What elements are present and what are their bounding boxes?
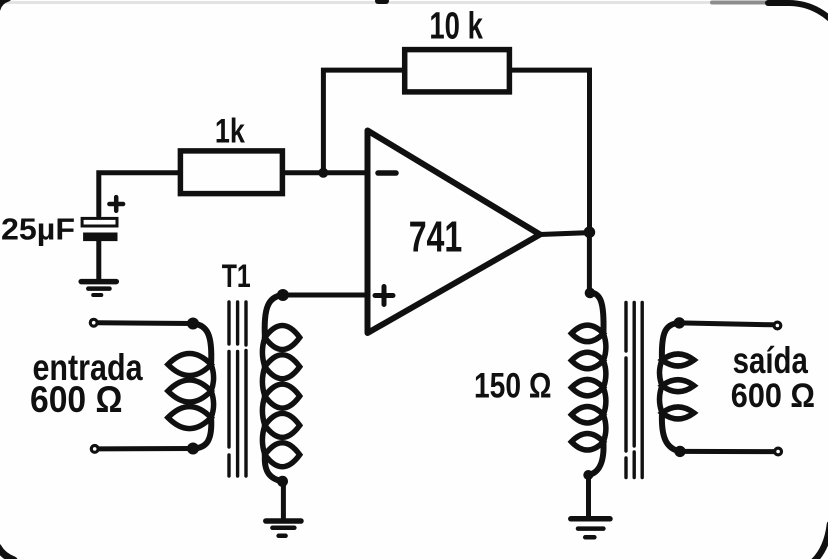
svg-text:600 Ω: 600 Ω	[30, 379, 123, 420]
svg-text:saída: saída	[733, 340, 809, 381]
svg-text:1k: 1k	[215, 112, 245, 150]
svg-text:T1: T1	[222, 258, 251, 294]
svg-text:600 Ω: 600 Ω	[731, 377, 815, 415]
svg-text:25µF: 25µF	[1, 212, 75, 247]
svg-text:150 Ω: 150 Ω	[474, 367, 552, 406]
svg-text:741: 741	[409, 213, 463, 262]
svg-text:10 k: 10 k	[429, 6, 483, 48]
